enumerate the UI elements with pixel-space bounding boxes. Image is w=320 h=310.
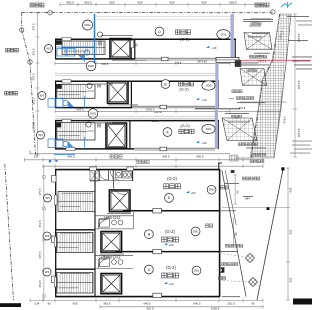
stairs unit A (plan1) (57, 123, 96, 141)
room B name plan2 (162, 237, 167, 242)
svg-text:DW1: DW1 (194, 269, 200, 272)
svg-text:2973.5: 2973.5 (258, 60, 267, 64)
svg-text:+30: +30 (202, 141, 207, 145)
top dimension line (60, 4, 262, 6)
meter box D (52, 176, 57, 183)
interior wall x132 (bath right) (132, 169, 134, 181)
svg-text:2473.56: 2473.56 (197, 59, 207, 63)
window tag W3 unit B (38, 92, 46, 100)
svg-text:650: 650 (137, 1, 142, 5)
window plan2 top wall 2 (127, 167, 134, 171)
svg-text:375.5: 375.5 (38, 188, 42, 195)
unit B walls (top plan) (55, 80, 219, 82)
right vertical dimension plan2 (287, 168, 289, 300)
window in B top wall (62, 80, 71, 83)
blue fixtures unit B (48, 96, 85, 108)
label chikai-sen right (255, 3, 259, 7)
svg-text:SD1: SD1 (206, 127, 212, 131)
room B label plan2 (145, 230, 154, 239)
room D label (155, 27, 164, 36)
separator left A top (55, 268, 95, 270)
svg-text:+M4: +M4 (244, 197, 250, 201)
projection lines above unit A (55, 115, 216, 117)
note4 (231, 115, 234, 118)
elevator unit B (plan1) (108, 82, 129, 104)
door marker unit D (97, 32, 102, 37)
balcony box 2 (240, 69, 267, 86)
bath unit A fixtures (95, 258, 133, 268)
left dimension line plan2 (43, 165, 45, 300)
svg-text:+30: +30 (212, 46, 217, 50)
elevator note B (100, 253, 124, 256)
floor separation ext B/A into balcony (220, 251, 238, 253)
bottom outline of plan1 (30, 153, 230, 155)
bath unit B fixtures (95, 212, 134, 229)
window mid B wall (160, 105, 167, 109)
svg-text:640.5: 640.5 (163, 155, 170, 159)
balcony label A (218, 276, 221, 279)
drain tag DW1 A plan2 (192, 266, 201, 275)
drain tag DW3 plan2 (207, 185, 216, 194)
elevator note D (107, 212, 131, 215)
ue label (98, 42, 101, 45)
balcony box 3 (222, 118, 257, 141)
upper storey projection lines above unit D (96, 16, 236, 18)
diamond marker 2 (249, 278, 258, 287)
svg-text:D: D (158, 30, 161, 34)
svg-text:W3: W3 (38, 133, 43, 137)
svg-text:D: D (168, 196, 171, 200)
svg-text:(G-2): (G-2) (167, 176, 177, 181)
note3 label (232, 90, 235, 93)
svg-text:(G-2): (G-2) (166, 265, 176, 270)
svg-text:GOO.5: GOO.5 (146, 107, 155, 111)
shokai-sen label 2 (137, 160, 140, 163)
svg-text:(G-2): (G-2) (180, 123, 190, 128)
svg-text:640.5: 640.5 (144, 301, 151, 305)
note (251, 22, 254, 25)
balcony projection label B (236, 97, 239, 100)
balcony label B (205, 224, 208, 227)
svg-text:1871.5: 1871.5 (297, 33, 301, 42)
svg-text:351.5: 351.5 (38, 280, 42, 287)
svg-text:656.5: 656.5 (66, 1, 74, 5)
door arc unit A (99, 259, 108, 268)
note2 (247, 69, 250, 72)
outer boundary thin edge (287, 14, 292, 60)
shokai-sen label 1 (110, 155, 113, 158)
ue label B (97, 84, 100, 87)
top dimension line plan2 (43, 165, 263, 167)
stairs unit A (plan2) (57, 273, 94, 294)
drain tag DW1 B plan2 (191, 227, 200, 236)
balcony slant line 1 (222, 170, 235, 237)
blue pipe below unit A (54, 153, 75, 155)
dimension line between D and B (55, 62, 230, 64)
entry double door arcs unit D (99, 171, 119, 180)
boundary circle marker (48, 11, 52, 15)
site boundary dash-dot top (22, 12, 274, 14)
window mid A wall (160, 147, 167, 151)
dashed leader to diamond 1 (220, 253, 245, 257)
bath label B (105, 216, 108, 219)
tiny label above box1 (243, 18, 273, 21)
unit A walls (top plan) (55, 120, 219, 122)
bowtie marker on wall (220, 267, 224, 272)
left dimension line top plan (37, 13, 39, 155)
wall D/B right rooms (123, 210, 220, 212)
partition wall right of elevator D (134, 39, 136, 59)
proj label 2 (225, 244, 228, 247)
bath unit D fixtures (90, 170, 133, 180)
svg-text:W3: W3 (45, 234, 50, 238)
window tag W3 unit B plan2 (43, 232, 51, 240)
thin line y102 (240, 101, 287, 103)
svg-text:275.5: 275.5 (32, 23, 36, 30)
separator extension right (B/A) (195, 108, 240, 110)
svg-text:90: 90 (47, 301, 51, 305)
dark hatch block at duct top (235, 60, 241, 67)
svg-text:962.5: 962.5 (104, 301, 111, 305)
svg-text:1002.5: 1002.5 (211, 306, 220, 310)
stairs unit D (plan1) (62, 41, 105, 54)
svg-text:474.5: 474.5 (282, 116, 287, 124)
svg-text:DW2: DW2 (90, 111, 96, 115)
balcony box 1 (crosshatched parallelogram) (244, 33, 272, 50)
site boundary right (plan2) (257, 169, 283, 301)
crosshatch boundary band (slope) (250, 14, 291, 158)
room A name plan2 (162, 273, 167, 278)
svg-text:375.5: 375.5 (32, 73, 36, 80)
note5 (238, 143, 241, 146)
window tag W3 unit D plan2 (44, 194, 52, 202)
door marker unit B (87, 83, 92, 88)
svg-text:565: 565 (289, 277, 293, 282)
big door arc to stair hall D (113, 188, 126, 194)
note6 (252, 153, 255, 156)
dashed leader to diamond 2 (220, 281, 248, 282)
blue survey dots (49, 160, 52, 163)
svg-text:W3: W3 (45, 196, 50, 200)
bath unit A top line (95, 254, 133, 256)
bottom dim row 2 (100, 306, 263, 308)
window in D top wall (62, 38, 71, 41)
door tag SD1 unit D (217, 30, 230, 39)
stair landing A (87, 123, 95, 139)
tiny label below elevator D (112, 59, 146, 62)
small vertical dim 90 (balcony D) (234, 175, 236, 204)
blue fixtures unit A (48, 137, 85, 149)
boundary mid point (267, 207, 270, 210)
svg-text:640.5: 640.5 (194, 301, 201, 305)
right vertical dimension line x295 (294, 14, 296, 157)
black corner bar right (293, 299, 312, 305)
site boundary left (plan2) (5, 164, 14, 300)
site boundary right diagonal (top plan) (271, 10, 275, 14)
site boundary left (top plan) (21, 13, 23, 31)
svg-text:DW2: DW2 (84, 23, 91, 27)
svg-text:351.5: 351.5 (38, 220, 42, 227)
building outline plan2 (55, 169, 220, 171)
meter box A (52, 276, 57, 283)
window in D/B wall (153, 209, 162, 213)
svg-text:W3: W3 (46, 47, 51, 51)
floor separation ext D/B into balcony (220, 210, 236, 212)
lavender duct right of unit B (215, 63, 218, 108)
svg-text:DW1: DW1 (193, 230, 199, 233)
dimension line between B and A (55, 110, 230, 112)
stair end box D (56, 40, 62, 45)
bath unit B top line (95, 215, 133, 217)
svg-text:645.5: 645.5 (77, 107, 84, 111)
window tag W3 unit D (45, 45, 53, 53)
svg-text:1871.5: 1871.5 (297, 128, 301, 137)
window plan2 top wall 1 (90, 167, 97, 171)
svg-text:351.5: 351.5 (32, 97, 36, 104)
balcony projection label (249, 55, 252, 58)
svg-text:650: 650 (201, 1, 206, 5)
svg-text:457.8: 457.8 (239, 106, 246, 110)
blue drain riser D (94, 14, 96, 68)
meter box B (52, 236, 57, 243)
unit D walls (top plan) (55, 38, 236, 40)
svg-text:(G-2): (G-2) (180, 36, 190, 41)
tiny note bottom right (222, 295, 240, 298)
svg-text:640.5: 640.5 (197, 155, 204, 159)
separator ext line BA right (225, 110, 281, 112)
svg-text:650: 650 (169, 1, 174, 5)
svg-text:+60: +60 (169, 282, 174, 286)
proj label 3 (220, 263, 223, 266)
window in B/A wall (153, 249, 162, 253)
room A label plan2 (145, 265, 154, 274)
drain tag DW2 mid (86, 61, 96, 71)
small vertical dim 90 (balcony B) (233, 218, 235, 247)
svg-text:134: 134 (35, 301, 40, 305)
wall B/A right rooms (115, 251, 220, 253)
elevator unit A (plan1) (106, 123, 127, 148)
svg-text:W3: W3 (40, 94, 45, 98)
label left (6, 48, 10, 52)
svg-text:375.5: 375.5 (38, 251, 42, 258)
stair step note A (60, 272, 90, 275)
room B name (178, 82, 182, 86)
cyan survey mark top right (281, 3, 292, 8)
+30 level mark D (206, 46, 209, 48)
window left wall B (54, 237, 57, 247)
small hatched box near notes (230, 155, 239, 161)
stairs unit D (plan2) (58, 192, 95, 212)
black corner bar left (0, 303, 21, 307)
svg-text:603: 603 (73, 301, 78, 305)
room D name (175, 30, 179, 34)
svg-text:DW2: DW2 (88, 64, 94, 68)
dim line plan1 bottom (25, 159, 264, 161)
elevator unit D (plan2) (109, 190, 130, 212)
lavender pipe/duct right of unit D (230, 14, 233, 59)
elevator unit D (plan1) (110, 39, 131, 59)
stairs unit B (plan1) (57, 84, 96, 98)
right margin tiny notes (top plan) (292, 56, 312, 59)
horizontal guide line y207.7 (222, 207, 288, 209)
room B label (161, 80, 170, 89)
room A name (179, 129, 183, 133)
elevator unit B (plan2) (101, 232, 122, 253)
window mid D wall (162, 57, 169, 61)
svg-text:565: 565 (289, 229, 293, 234)
door arc unit B (99, 220, 108, 229)
balcony slant line 2 (235, 237, 246, 296)
svg-text:1871.5: 1871.5 (297, 80, 301, 89)
svg-text:SD1: SD1 (220, 32, 226, 36)
red projection line y60 (216, 59, 311, 61)
window left wall A (54, 277, 57, 287)
blue fixtures unit D (57, 47, 95, 56)
svg-text:(G-2): (G-2) (165, 229, 175, 234)
svg-text:962.5: 962.5 (84, 1, 92, 5)
tiny label above box3 (225, 112, 249, 115)
door/window in D bottom wall (216, 57, 239, 62)
label left 2 (5, 91, 9, 95)
svg-text:210.5: 210.5 (228, 301, 235, 305)
svg-text:140: 140 (101, 254, 106, 258)
svg-text:210.5: 210.5 (147, 306, 154, 310)
svg-text:650: 650 (109, 1, 114, 5)
top-right stub walls (218, 162, 222, 164)
svg-text:234.56: 234.56 (154, 110, 162, 114)
boundary corner point (281, 167, 284, 170)
svg-text:223: 223 (34, 155, 39, 159)
bottom dim row 1 (30, 299, 263, 301)
projection lines above unit B (55, 72, 216, 74)
svg-text:375.5: 375.5 (32, 122, 36, 129)
door tag SD2 unit B (202, 81, 215, 90)
drain tag DW2 mid2 (88, 109, 98, 119)
interior wall x95 (94, 169, 96, 296)
svg-text:665: 665 (289, 187, 293, 192)
svg-text:SD2: SD2 (206, 84, 212, 88)
balcony slant line 1b (225, 170, 236, 225)
proj label 1 (242, 177, 245, 180)
window left wall D (54, 195, 57, 205)
interior wall x99 (98, 169, 100, 181)
balcony label D (221, 186, 224, 189)
room A label (163, 128, 172, 137)
label chikai-sen (30, 3, 34, 7)
window in A bottom wall (153, 293, 162, 297)
window tag W3 unit A (37, 131, 45, 139)
diamond marker 1 (246, 254, 255, 263)
stairs unit B (plan2) (57, 233, 94, 253)
drain tag DW2 top (83, 20, 93, 30)
closet D with diagonals (90, 170, 99, 181)
svg-text:DW3: DW3 (209, 189, 215, 192)
svg-text:+60: +60 (169, 243, 174, 247)
separator left B top (55, 229, 95, 231)
tiny machine label above elevator D (101, 34, 133, 37)
interior wall x113 (112, 169, 114, 181)
bath label A (105, 255, 108, 258)
svg-text:+60: +60 (191, 191, 196, 195)
elevator unit A (plan2) (101, 274, 122, 294)
stair step note B (60, 232, 90, 235)
lavender duct right of unit A (215, 110, 218, 149)
window in A top wall (62, 119, 71, 122)
duct beside elevator D (131, 40, 134, 48)
svg-text:W3: W3 (45, 270, 50, 274)
note7 (250, 160, 253, 163)
stair step note D (62, 192, 92, 195)
room D name plan2 (164, 184, 169, 189)
hall wall below bath D (112, 181, 114, 188)
svg-text:656.5: 656.5 (229, 1, 237, 5)
door tag SD1 unit A (202, 124, 215, 133)
tiny label above box2 (243, 64, 269, 67)
window tag W3 unit A plan2 (43, 268, 51, 276)
svg-text:645.5: 645.5 (102, 62, 109, 66)
svg-text:640.5: 640.5 (68, 155, 75, 159)
svg-text:(G-2): (G-2) (179, 87, 189, 92)
corner block balcony D (231, 170, 235, 173)
door marker unit A (86, 122, 91, 127)
svg-text:+30: +30 (202, 98, 207, 102)
svg-text:351.5: 351.5 (32, 48, 36, 55)
window in A bottom wall plan1 (66, 147, 75, 150)
stair landing B (87, 85, 95, 97)
svg-text:90: 90 (251, 301, 255, 305)
ue label A (97, 124, 100, 127)
